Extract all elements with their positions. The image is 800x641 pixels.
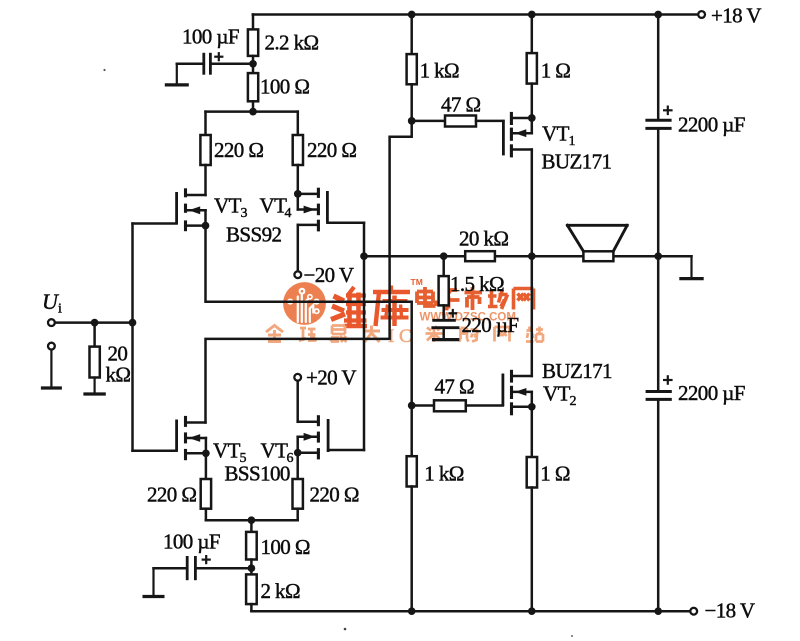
svg-text:C: C [399, 326, 412, 347]
svg-text:kΩ: kΩ [106, 363, 131, 387]
svg-text:1: 1 [569, 134, 576, 149]
svg-text:220 Ω: 220 Ω [147, 483, 196, 507]
svg-text:2: 2 [570, 394, 577, 409]
svg-text:BUZ171: BUZ171 [542, 359, 612, 383]
svg-text:2 kΩ: 2 kΩ [261, 579, 300, 603]
svg-text:20 kΩ: 20 kΩ [459, 226, 508, 250]
svg-text:VT: VT [261, 439, 289, 463]
svg-text:2200 µF: 2200 µF [678, 381, 745, 405]
svg-text:6: 6 [287, 451, 294, 466]
svg-text:100 Ω: 100 Ω [261, 535, 310, 559]
svg-text:47 Ω: 47 Ω [441, 93, 480, 117]
svg-text:TM: TM [411, 277, 423, 287]
svg-text:VT: VT [260, 194, 288, 218]
svg-text:BSS100: BSS100 [225, 462, 290, 486]
svg-text:2.2 kΩ: 2.2 kΩ [265, 30, 319, 54]
svg-text:1 kΩ: 1 kΩ [424, 461, 463, 485]
svg-text:100 µF: 100 µF [182, 24, 239, 48]
svg-text:VT: VT [543, 382, 571, 406]
svg-text:VT: VT [214, 194, 242, 218]
svg-text:4: 4 [285, 206, 292, 221]
svg-text:47 Ω: 47 Ω [435, 375, 474, 399]
svg-text:220 Ω: 220 Ω [310, 483, 359, 507]
svg-text:100 µF: 100 µF [163, 530, 220, 554]
svg-text:220 Ω: 220 Ω [214, 138, 263, 162]
svg-text:3: 3 [241, 206, 248, 221]
svg-text:+18 V: +18 V [711, 3, 761, 27]
svg-text:220 µF: 220 µF [462, 313, 519, 337]
svg-text:1 kΩ: 1 kΩ [420, 58, 459, 82]
svg-text:1.5 kΩ: 1.5 kΩ [450, 272, 504, 296]
svg-text:−18 V: −18 V [705, 599, 755, 623]
svg-text:1 Ω: 1 Ω [541, 58, 571, 82]
svg-text:100 Ω: 100 Ω [260, 75, 309, 99]
svg-text:220 Ω: 220 Ω [307, 138, 356, 162]
svg-text:+20 V: +20 V [306, 365, 356, 389]
svg-text:−20 V: −20 V [304, 263, 354, 287]
svg-text:2200 µF: 2200 µF [678, 113, 745, 137]
svg-text:1 Ω: 1 Ω [540, 461, 570, 485]
svg-text:VT: VT [542, 122, 570, 146]
svg-text:BUZ171: BUZ171 [542, 150, 612, 174]
svg-text:VT: VT [213, 439, 241, 463]
svg-text:BSS92: BSS92 [226, 223, 281, 247]
